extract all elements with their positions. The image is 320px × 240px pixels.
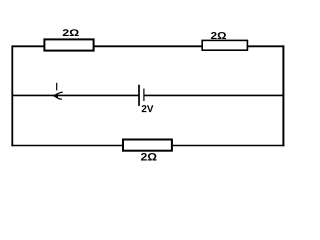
resistor R3 2ohm (bottom) [123, 140, 172, 151]
wire: outer loop top [12, 45, 283, 47]
wire: middle branch right of battery [144, 94, 283, 96]
current arrow on middle wire (pointing left) [53, 92, 62, 99]
label 2ohm for R2 [211, 32, 226, 39]
battery V1: long plate [138, 85, 140, 106]
resistor R2 2ohm (top right) [202, 40, 247, 50]
wire: outer loop left [11, 45, 13, 146]
resistor R1 2ohm (top left) [44, 39, 93, 50]
label 2ohm for R1 [63, 29, 79, 36]
wire: outer loop right [282, 45, 284, 146]
battery V1: short plate [143, 89, 145, 102]
label I (current) [56, 83, 58, 91]
wire: middle branch left of battery [12, 94, 139, 96]
label 2V for battery [142, 105, 154, 112]
label 2ohm for R3 [141, 153, 156, 160]
wire: outer loop bottom [11, 145, 284, 147]
